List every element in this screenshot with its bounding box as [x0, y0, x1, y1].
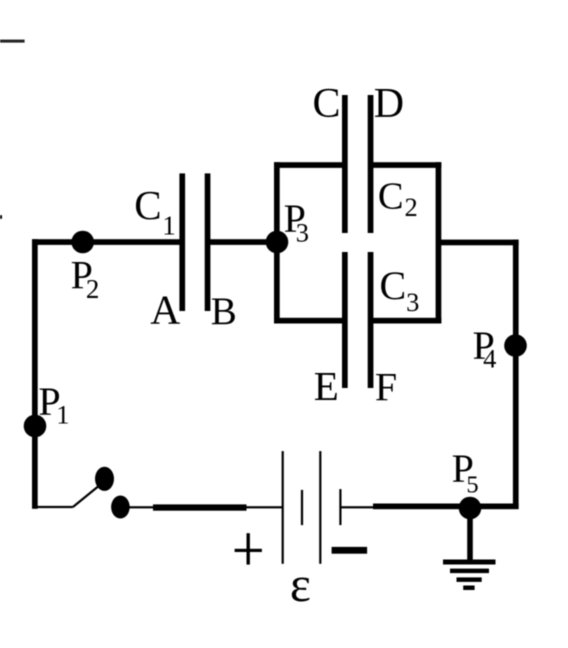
node P4 dot [504, 334, 527, 357]
label - (battery negative) [332, 547, 368, 554]
wire: bottom right horizontal (battery minus terminal to right corner) [373, 504, 519, 510]
ground bar 4 [463, 586, 474, 591]
wire: top horizontal from left corner to capacitor C1 plate A [32, 239, 182, 245]
box right edge (wire) [436, 162, 442, 323]
box top edge right segment from plate D [371, 162, 442, 168]
capacitor C3 plate F [368, 252, 374, 388]
label + (battery positive) [235, 549, 262, 552]
svg-text:C: C [134, 182, 161, 228]
ground stub [467, 508, 473, 562]
svg-text:E: E [314, 363, 339, 409]
ground bar 1 [443, 560, 496, 565]
stray tick left edge [0, 215, 2, 219]
svg-text:C: C [378, 176, 404, 218]
node P3 dot [266, 231, 289, 254]
svg-text:A: A [150, 287, 180, 333]
battery cell plate long 2 [319, 451, 321, 564]
svg-text:3: 3 [406, 287, 419, 317]
wire: thin lead from switch to battery [130, 506, 283, 508]
svg-text:4: 4 [483, 344, 496, 374]
capacitor C1 plate A [179, 173, 185, 311]
svg-text:3: 3 [296, 218, 309, 248]
wire: box right edge to right vertical [439, 240, 519, 246]
switch: thin lead from left vertical wire [35, 506, 73, 508]
svg-text:B: B [211, 290, 237, 333]
box left edge (wire) [274, 162, 280, 323]
capacitor C2 plate C [342, 95, 348, 233]
svg-text:ε: ε [290, 556, 311, 612]
node P2 dot [71, 231, 94, 254]
svg-text:F: F [375, 365, 397, 410]
battery cell plate short 2 [339, 489, 341, 525]
ground bar 3 [457, 577, 482, 582]
wire: thin lead battery right plate to thick wire [340, 506, 373, 508]
capacitor C3 plate E [342, 252, 348, 388]
svg-text:1: 1 [56, 399, 69, 429]
svg-text:2: 2 [405, 192, 418, 222]
svg-text:2: 2 [86, 274, 100, 304]
svg-text:D: D [374, 81, 404, 127]
wire: right vertical [513, 240, 519, 509]
switch contact lower dot [111, 496, 130, 519]
svg-text:5: 5 [466, 472, 478, 499]
capacitor C1 plate B [205, 173, 211, 311]
svg-text:C: C [313, 81, 341, 127]
wire: plate B to node P3 [208, 239, 280, 245]
box bottom edge right segment from plate F [371, 318, 442, 324]
box top edge left segment to plate C [274, 162, 345, 168]
node P1 dot [24, 415, 47, 438]
ground bar 2 [450, 569, 489, 574]
node P5 dot [459, 497, 482, 520]
capacitor C2 plate D [368, 95, 374, 233]
svg-text:C: C [380, 263, 407, 308]
box bottom edge left segment to plate E [274, 318, 345, 324]
switch blade (open, diagonal) [73, 483, 103, 508]
switch contact upper dot [95, 467, 114, 491]
wire: thick overlay segment [153, 504, 247, 510]
stray cropped line top-left [0, 40, 25, 43]
battery cell plate long 1 (+) [282, 451, 284, 564]
battery cell plate short 1 [301, 490, 303, 525]
wire: left vertical [32, 239, 38, 509]
svg-text:1: 1 [162, 210, 176, 240]
